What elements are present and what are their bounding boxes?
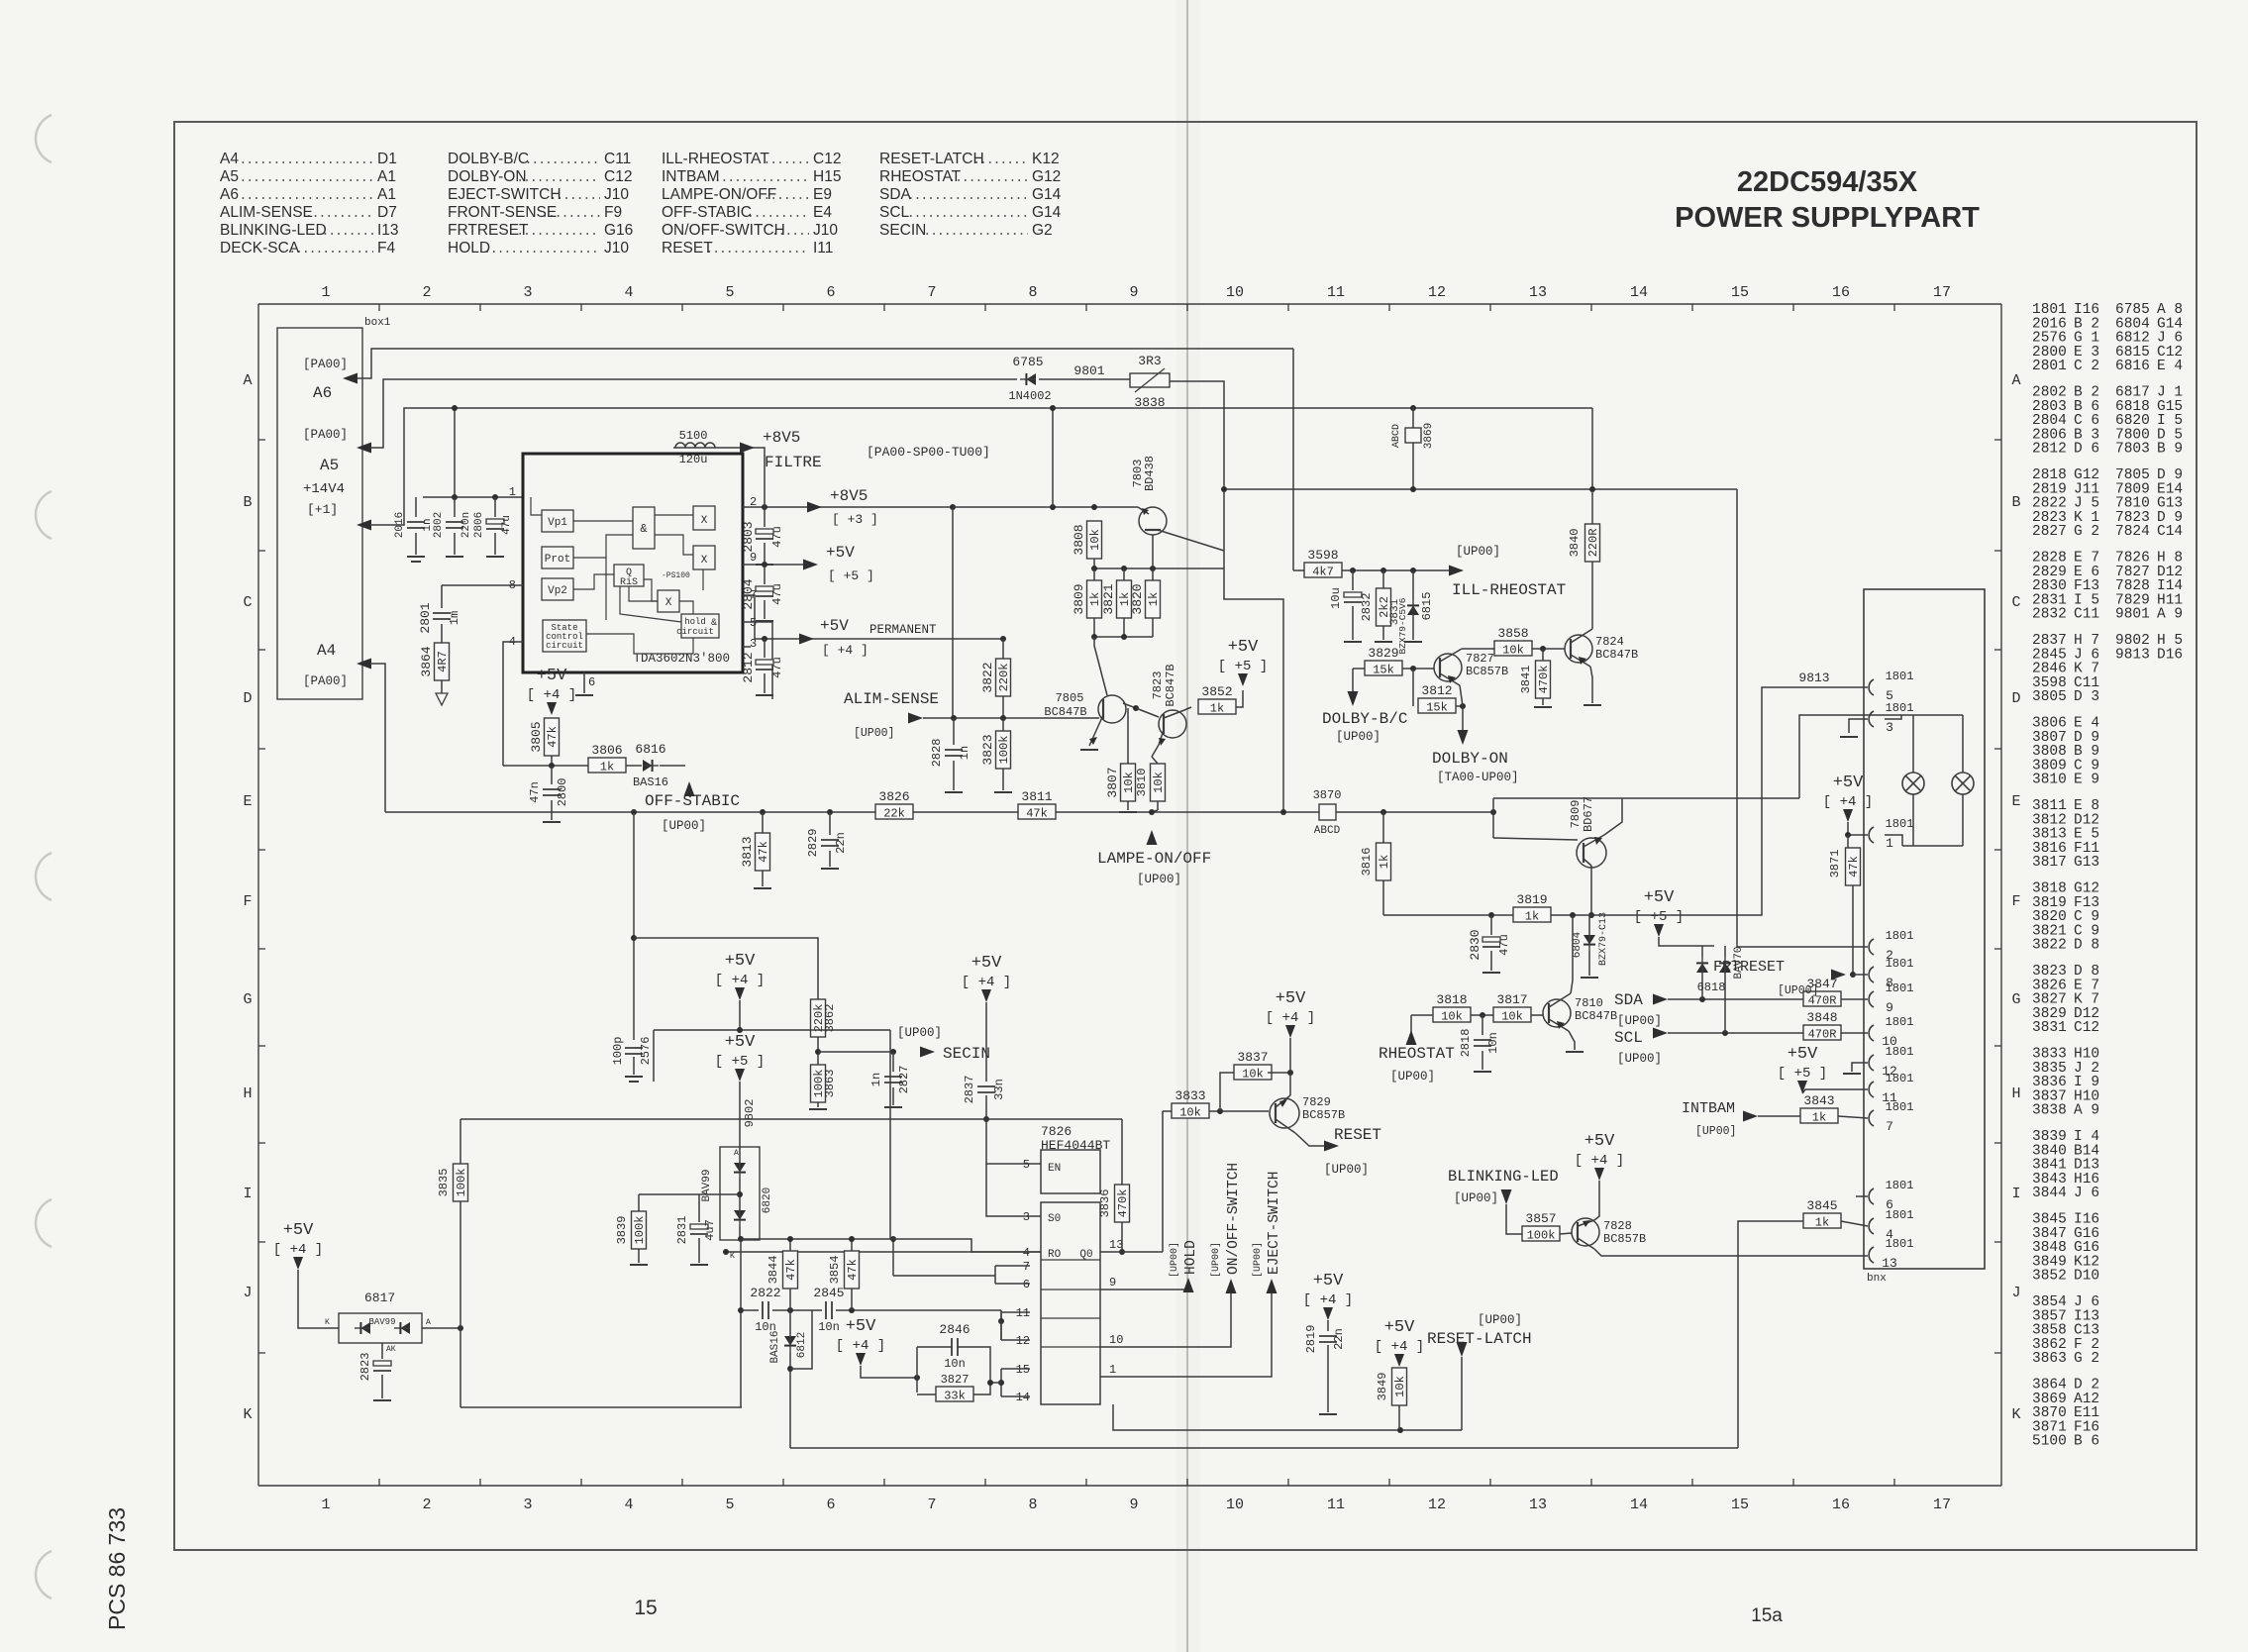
svg-text:13: 13 [1882,1256,1897,1271]
wire cap2016 bottom [415,533,417,555]
wire 6817 down [460,1328,461,1407]
svg-text:1801: 1801 [1886,1045,1914,1059]
wire 7809 drop [1492,798,1494,838]
svg-text:J10: J10 [604,240,629,257]
list row 3810 [2032,773,2099,788]
svg-text:RHEOSTAT: RHEOSTAT [1379,1045,1455,1063]
list row 2827 [2032,524,2183,540]
svg-text:A: A [243,372,252,389]
ground pin 3 [1840,736,1858,738]
wire rail to alim-sense [952,507,954,718]
svg-text:[UP00]: [UP00] [1695,1125,1736,1138]
svg-text:6820: 6820 [762,1187,773,1213]
svg-text:3810: 3810 [1135,769,1149,797]
svg-text:9801: 9801 [1073,363,1104,378]
list row 3805 [2032,689,2099,705]
wire qris down [629,586,658,601]
wire 3840 top [1591,489,1593,524]
wire reset-latch stem [1461,1357,1463,1430]
wire vp1 to and [573,520,633,522]
ground 2832 cap [1344,641,1362,643]
wire SDA net [1668,998,1807,1000]
signal arrow SDA [1653,994,1668,1005]
wire 2819 top stub [1327,1320,1329,1331]
wire 6812 bottom [789,1352,791,1448]
list row 3816 [2032,841,2099,857]
svg-text:E: E [2011,793,2020,810]
resistor 3864 [419,643,450,680]
svg-text:47n: 47n [528,781,542,803]
svg-text:A 9: A 9 [2157,607,2183,623]
svg-text:2832: 2832 [2032,607,2067,623]
svg-text:10k: 10k [1088,529,1102,551]
wire 33k right [973,1383,990,1394]
svg-text:5: 5 [750,616,757,630]
wire 2845 net drop [1000,1310,1002,1321]
signal arrow HOLD [1183,1278,1194,1292]
svg-text:4: 4 [624,284,633,301]
junction [549,763,555,769]
svg-text:C11: C11 [604,151,631,167]
wire secin out [818,1051,893,1053]
svg-text:2829: 2829 [806,829,820,858]
svg-text:[UP00]: [UP00] [662,819,706,833]
svg-text:1801: 1801 [1886,1208,1914,1222]
svg-text:B 9: B 9 [2157,442,2183,458]
svg-text:3852: 3852 [1201,684,1232,699]
junction [815,1049,821,1055]
wire cap2806 bottom [494,533,496,555]
svg-text:3849: 3849 [1376,1373,1389,1401]
svg-text:+14V4: +14V4 [303,481,345,497]
svg-text:14: 14 [1630,1497,1648,1513]
resistor None [1392,1368,1408,1405]
svg-text:6815: 6815 [1420,592,1434,621]
wire secin branch [634,938,818,999]
wire qris to reg3 [644,579,658,601]
list row 3844 [2032,1186,2099,1201]
svg-text:C14: C14 [2157,524,2183,540]
wire K row bus [460,1406,742,1408]
svg-text:[UP00]: [UP00] [1336,730,1380,744]
connector 1801 pin 2 [1869,929,1913,963]
svg-text:SCL: SCL [879,204,910,221]
svg-text:1801: 1801 [1886,1179,1914,1192]
wire filtre join [764,485,766,507]
wire 7810 collector [1571,981,1573,993]
wire 2846 link [990,1382,1001,1384]
svg-text:7827: 7827 [1466,652,1494,666]
svg-text:J 6: J 6 [2074,1186,2099,1201]
wire 3849 bottom [1398,1405,1400,1430]
junction [998,1380,1004,1386]
list row 3811 [2032,798,2099,814]
svg-text:2823: 2823 [358,1353,372,1382]
capacitor 2830 [1468,929,1511,960]
svg-text:100k: 100k [633,1216,647,1245]
svg-text:2576: 2576 [639,1037,653,1066]
wire 7827 collector to 3858 [1462,648,1494,650]
svg-text:[UP00]: [UP00] [1456,545,1500,559]
capacitor None [543,789,561,795]
svg-text:box1: box1 [364,317,391,329]
ground 2827 [884,1106,902,1108]
wire 7809 base wire [1493,838,1578,840]
svg-text:3817: 3817 [1496,992,1527,1007]
svg-text:22k: 22k [883,807,905,821]
svg-text:[UP00]: [UP00] [897,1026,942,1040]
list row 2846 [2032,662,2099,677]
svg-text:A1: A1 [377,186,396,203]
diode 6820 BAV99 top [734,1163,746,1179]
svg-text:RESET-LATCH: RESET-LATCH [879,151,984,167]
junction [631,935,637,941]
junction [890,1236,896,1242]
svg-text:100k: 100k [997,736,1011,765]
svg-text:A6: A6 [220,186,239,203]
wire pin1 out [1100,1292,1272,1377]
svg-text:3808: 3808 [1072,524,1086,555]
svg-text:Vp1: Vp1 [548,517,567,529]
svg-text:2837: 2837 [963,1076,976,1104]
wire 9801 net [1039,378,1130,380]
svg-text:G2: G2 [1032,222,1053,239]
transistor 7803 BD438 [1138,507,1224,551]
svg-text:[UP00]: [UP00] [1137,873,1181,886]
resistor None [1585,524,1601,562]
wire 7828 emitter to pin13 [1594,1249,1868,1256]
ground 2823 [373,1399,391,1401]
diode pack 6820 BAV99 [720,1147,760,1240]
svg-text:2: 2 [422,1497,431,1513]
wire 6804 bottom [1588,951,1590,976]
wire pin7 +5V permanent [743,595,807,639]
signal arrow RHEOSTAT [1406,1030,1417,1045]
svg-text:F: F [243,893,252,910]
svg-text:3822: 3822 [2032,938,2067,954]
transistor 7827 BC857B [1434,649,1462,685]
svg-text:BAS16: BAS16 [633,775,668,789]
svg-text:6812: 6812 [796,1332,808,1358]
list row 2804 [2032,413,2183,429]
junction [631,809,637,815]
svg-text:3598: 3598 [1307,548,1338,563]
svg-text:G14: G14 [1032,204,1062,221]
svg-text:3848: 3848 [1806,1010,1837,1025]
list row 2829 [2032,565,2183,580]
wire 3598 in [1293,569,1304,571]
svg-text:BC857B: BC857B [1603,1232,1646,1246]
junction [1280,809,1286,815]
svg-text:1801: 1801 [1886,817,1914,831]
svg-text:C: C [243,594,252,611]
svg-text:C11: C11 [2074,607,2099,623]
svg-text:3: 3 [523,1497,532,1513]
wire and to reg1 [655,514,693,516]
svg-text:G16: G16 [604,222,633,239]
capacitor None [977,1086,995,1092]
signal arrow ON/OFF-SWITCH [1226,1279,1237,1293]
list row 2845 [2032,647,2183,663]
svg-text:RESET: RESET [662,240,713,257]
svg-text:6817: 6817 [364,1291,395,1305]
svg-text:BD438: BD438 [1143,456,1157,491]
svg-text:3816: 3816 [1360,848,1374,877]
signal arrow +8V5 [+3] [807,502,822,513]
svg-text:J: J [2011,1285,2020,1301]
capacitor 2822 [750,1286,780,1334]
svg-text:3862: 3862 [823,1004,837,1033]
junction [1050,504,1056,510]
svg-text:+5V: +5V [846,1317,876,1336]
svg-text:3839: 3839 [615,1216,629,1245]
svg-text:4: 4 [1023,1246,1030,1260]
svg-text:10k: 10k [1393,1376,1407,1397]
signal arrow A5 [PA00] [357,443,371,454]
capacitor None [1474,1040,1491,1046]
wire 6818 right top [1724,946,1726,957]
svg-text:3831: 3831 [2032,1020,2067,1036]
svg-text:3864: 3864 [419,646,434,676]
transistor 7829 BC857B [1270,1095,1299,1133]
power +5V [+4] 3805 [547,702,557,715]
svg-text:OFF-STABIC: OFF-STABIC [662,204,752,221]
wire 6818 cathode feed [1659,937,1714,946]
signal arrow OFF-STABIC [684,781,695,796]
svg-text:120u: 120u [679,453,708,466]
svg-text:1k: 1k [1088,592,1102,606]
wire Q0 pin13 out [1100,1251,1163,1253]
wire 2837 bottom [985,1095,987,1119]
svg-text:6785: 6785 [1012,355,1043,369]
signal arrow DOLBY-ON [1458,730,1469,745]
svg-text:RHEOSTAT: RHEOSTAT [879,168,962,185]
svg-text:3843: 3843 [1803,1093,1834,1108]
resistor 3819 [1513,892,1551,924]
svg-text:-PS100: -PS100 [662,571,690,580]
svg-text:7803: 7803 [2115,442,2150,458]
IC internal block Vp2 [542,578,573,600]
svg-text:Prot: Prot [545,554,570,566]
svg-text:1801: 1801 [1886,1100,1914,1114]
wire cap2802 top [454,497,456,517]
svg-text:G13: G13 [2074,855,2099,871]
wire B bus down right [1591,408,1593,489]
svg-text:I13: I13 [377,222,399,239]
wire pin9 +5V [743,564,810,566]
transistor 7828 BC857B [1572,1218,1599,1249]
wire 3839 row [639,1193,699,1195]
svg-text:3863: 3863 [2032,1351,2067,1367]
capacitor None [1319,1336,1337,1342]
wire 7823 base [1136,708,1159,717]
wire 3848 out [1841,1032,1868,1034]
resistor 3843 [1800,1093,1838,1125]
svg-text:&: & [640,522,647,536]
wire 3831 top [1412,570,1414,599]
wire 3809 lead [1093,568,1095,580]
svg-text:3838: 3838 [1134,395,1165,410]
svg-text:3826: 3826 [878,789,909,804]
svg-text:+5V: +5V [1384,1318,1415,1337]
ground 2819 [1319,1413,1337,1415]
wire and to reg2 [655,535,693,555]
capacitor None [821,840,839,846]
IC internal block Vp1 [542,510,573,532]
ground arrow 3864 [436,693,448,705]
ground 2818 [1474,1071,1491,1073]
svg-text:H: H [243,1085,252,1102]
svg-text:C12: C12 [2074,1020,2099,1036]
svg-text:+5V: +5V [820,617,849,635]
svg-text:1n: 1n [958,746,971,760]
svg-text:SCL: SCL [1614,1029,1643,1047]
svg-text:+5V: +5V [826,544,855,562]
wire pin10 out [1100,1292,1231,1347]
wire pin15 stub [1001,1368,1030,1370]
svg-text:2: 2 [422,284,431,301]
svg-text:[ +5 ]: [ +5 ] [715,1054,765,1070]
wire 7805 collector [1094,637,1107,695]
wire +5V to pin1 [1848,822,1868,835]
svg-text:[UP00]: [UP00] [1617,1052,1662,1066]
connector 1801 pin 7 [1869,1100,1913,1134]
junction [827,809,833,815]
wire 3813 top [762,812,764,833]
svg-text:3809: 3809 [1072,583,1086,614]
svg-text:B: B [2011,494,2020,511]
svg-text:+5V: +5V [1313,1272,1344,1291]
svg-text:X: X [701,555,708,567]
svg-text:3819: 3819 [1516,892,1547,907]
capacitor 2812 [741,652,784,682]
svg-text:15: 15 [1731,284,1749,301]
svg-text:A4: A4 [317,642,336,660]
wire 2832res bottom [1382,626,1384,640]
svg-text:15: 15 [1016,1363,1030,1377]
wire 3836 bottom [1121,1222,1123,1252]
svg-text:2822: 2822 [750,1286,780,1300]
svg-text:3863: 3863 [823,1070,837,1098]
junction [1380,568,1386,573]
svg-text:3829: 3829 [1368,646,1398,661]
resistor 3821 [1101,580,1132,618]
svg-text:11: 11 [1327,1497,1345,1513]
wire pin6 stub [995,1283,1030,1285]
wire 2800 top [551,766,553,784]
svg-text:15a: 15a [1751,1605,1783,1626]
svg-text:EJECT-SWITCH: EJECT-SWITCH [1267,1172,1282,1275]
resistor None [1377,588,1392,626]
svg-text:2806: 2806 [473,512,485,538]
wire 6812 top [789,1310,791,1336]
power +5V [+5] 6818 [1654,924,1664,937]
svg-text:K: K [243,1406,252,1423]
svg-text:[UP00]: [UP00] [1324,1163,1369,1177]
svg-text:D 6: D 6 [2074,442,2099,458]
diode 6785 1N4002 [1020,373,1036,385]
junction [737,1191,743,1197]
wire pin6 stub [1856,1195,1868,1197]
wire 6818 right anode [1724,973,1726,1033]
list row 2831 [2032,592,2183,608]
IC internal block hold circuit [681,614,719,638]
svg-text:470k: 470k [1537,666,1551,694]
wire +8V5 rail [743,506,1138,508]
wire pin12 gnd stub [1852,1063,1868,1072]
wire 7810 emitter [1569,1031,1575,1050]
wire 3808 bottom [1093,559,1095,568]
wire bus A5 row [370,379,1017,448]
svg-text:INTBAM: INTBAM [1682,1100,1735,1117]
wire 3862 to 3863 [817,1037,819,1065]
svg-text:[ +4 ]: [ +4 ] [1303,1292,1353,1308]
wire pin2 net [1737,489,1868,947]
svg-text:10k: 10k [1242,1068,1264,1082]
svg-text:1801: 1801 [1886,670,1914,683]
wire 2818 bottom [1482,1051,1483,1070]
capacitor 2846 [939,1322,970,1371]
svg-text:6: 6 [826,284,835,301]
list row 3858 [2032,1323,2099,1339]
svg-text:6: 6 [826,1497,835,1513]
wire to 3870 [1313,811,1319,813]
wire 3817 out [1531,1014,1543,1016]
svg-text:7824: 7824 [1595,635,1624,649]
wire 3857 out [1560,1233,1572,1234]
junction [849,1236,855,1242]
svg-text:1801: 1801 [1886,1015,1914,1029]
junction [723,1249,729,1255]
svg-text:BAS16: BAS16 [769,1330,781,1363]
list row 3857 [2032,1308,2099,1324]
wire 9813 net [1591,687,1868,915]
svg-text:6816: 6816 [2115,359,2150,374]
resistor 3848 [1803,1010,1841,1042]
ground pin 12 [1843,1073,1861,1075]
ground 7810 [1566,1051,1584,1053]
junction [1460,703,1466,709]
IC internal block reg1 [693,506,715,530]
ground 2804 [756,620,773,622]
wire 3835 net high [460,1119,461,1164]
svg-text:1k: 1k [1147,592,1161,606]
svg-text:2016: 2016 [394,512,406,538]
svg-text:SDA: SDA [1614,991,1643,1009]
wire IC pin8 [442,584,523,586]
svg-text:C: C [2011,594,2020,611]
wire 3835 net low [460,1201,461,1328]
resistor 3807 [1105,764,1136,801]
svg-text:47u: 47u [770,526,784,548]
diode 6817 b [394,1322,410,1334]
wire 33k left [917,1394,936,1395]
junction [1488,912,1494,918]
wire IC pin4 down [503,642,523,766]
junction [1091,504,1097,510]
svg-text:2830: 2830 [1468,929,1482,960]
svg-text:3837: 3837 [1237,1050,1268,1065]
svg-text:[ +4 ]: [ +4 ] [1823,794,1873,810]
svg-text:47u: 47u [1497,934,1511,956]
svg-text:5: 5 [1023,1158,1030,1172]
wire ill-rheostat net [1342,569,1457,571]
list row 3809 [2032,758,2099,774]
junction [983,1116,989,1122]
wire internal v2 [620,586,681,622]
svg-text:1k: 1k [1525,910,1539,924]
svg-text:1m: 1m [448,611,461,625]
